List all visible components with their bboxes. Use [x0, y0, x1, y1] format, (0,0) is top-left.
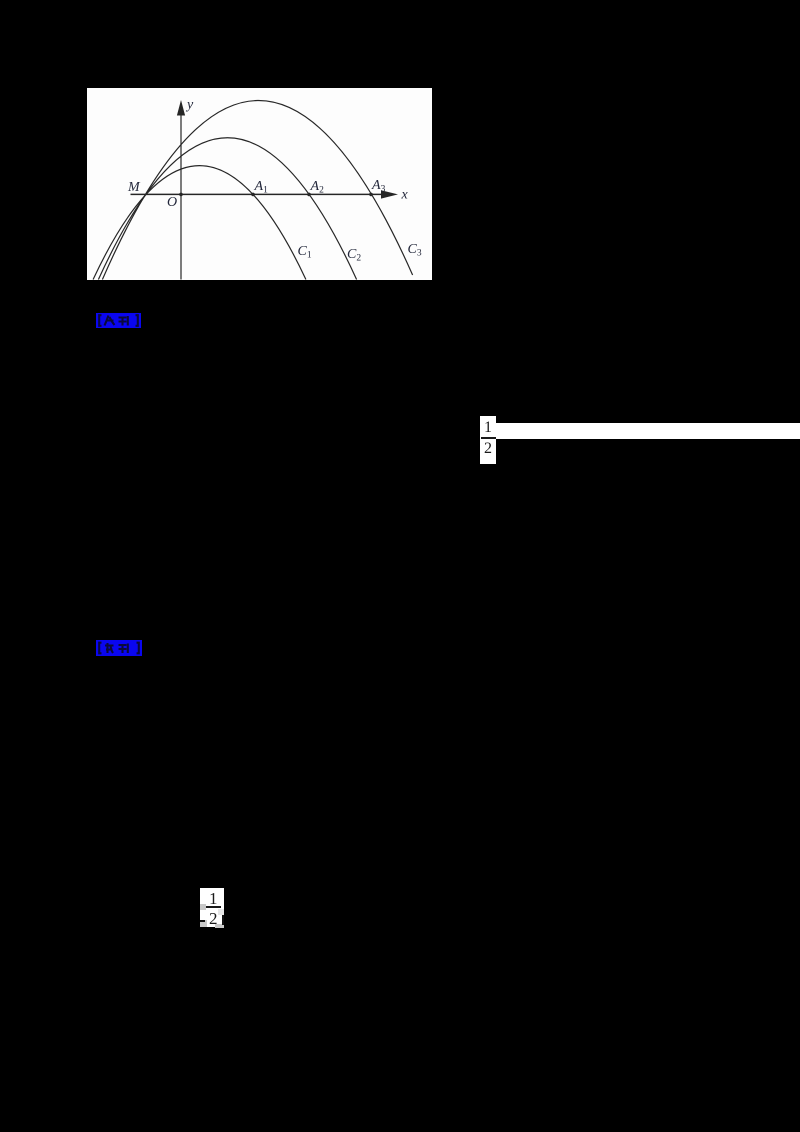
- denominator 2: [480, 441, 496, 457]
- figure: parabola graph panel (white): [87, 88, 432, 280]
- numerator 1: [480, 420, 496, 436]
- x-axis: [131, 193, 394, 195]
- svg-text:C2: C2: [347, 247, 361, 264]
- dot A3: [369, 193, 373, 197]
- y-axis arrowhead: [177, 100, 185, 116]
- fraction 2 text: [200, 888, 224, 927]
- partial letter right of fraction 2: [222, 915, 225, 925]
- svg-text:x: x: [401, 188, 409, 203]
- dot A2: [307, 193, 311, 197]
- svg-text:A3: A3: [371, 178, 386, 195]
- dot A1: [251, 193, 255, 197]
- highlight block 1 (blue) with dark glyph marks: [96, 313, 141, 328]
- svg-text:C1: C1: [298, 244, 312, 261]
- x-axis arrowhead: [381, 190, 398, 198]
- fraction bar: [481, 437, 496, 439]
- curve C3: [102, 101, 412, 280]
- y-axis: [180, 112, 182, 280]
- equation fragment 2: white block with fraction 1/2: [200, 888, 224, 927]
- curve C1: [93, 166, 306, 280]
- svg-text:A2: A2: [310, 179, 325, 196]
- gray patches of fragment 2: [200, 904, 206, 911]
- curve C2: [98, 138, 356, 280]
- svg-text:C3: C3: [408, 242, 422, 259]
- svg-text:M: M: [127, 180, 141, 195]
- svg-text:O: O: [167, 195, 177, 210]
- origin dot O: [179, 193, 183, 197]
- highlight block 2 (blue) with dark glyph marks: [96, 640, 142, 656]
- svg-text:A1: A1: [254, 179, 269, 196]
- svg-text:y: y: [185, 98, 194, 113]
- equation fragment 1: fraction 1/2 on white: [480, 416, 496, 464]
- equation fragment 1: white strip: [496, 423, 800, 439]
- minus dash at left of fraction 2: [200, 920, 205, 922]
